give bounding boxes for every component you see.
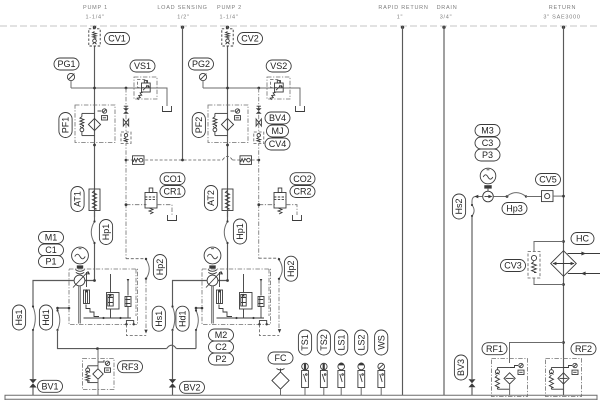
wire load sensing bus bbox=[182, 26, 184, 160]
svg-text:3" SAE3000: 3" SAE3000 bbox=[543, 15, 580, 21]
check valve CV5 bbox=[542, 191, 565, 202]
label Hd1 l bbox=[39, 305, 52, 330]
label Hp1 r bbox=[233, 219, 246, 244]
wire Hp2 right lower bbox=[278, 279, 281, 333]
label FC bbox=[268, 352, 293, 364]
port marker RETURN bbox=[562, 26, 565, 29]
wire Hs1 (pump2 out) bbox=[171, 281, 207, 380]
label C3 bbox=[475, 137, 500, 149]
linkage pump 2 valve assembly bbox=[219, 305, 232, 317]
wire VS1 drain bbox=[157, 88, 167, 106]
wire gauge column pump1 bbox=[125, 88, 127, 259]
manifold block pump 1 valve assembly bbox=[69, 269, 138, 325]
svg-text:Hp3: Hp3 bbox=[506, 204, 523, 214]
svg-text:Hs1: Hs1 bbox=[154, 311, 164, 327]
valve VS1 bbox=[134, 77, 157, 100]
check valve CV3 bbox=[528, 242, 564, 285]
tank symbol VS2 drain bbox=[296, 106, 305, 112]
valve VS2 bbox=[267, 77, 290, 100]
wire manifold LS to Hp2 pump2 bbox=[259, 325, 279, 336]
variable pump pump 1 valve assembly bbox=[73, 271, 90, 324]
port marker RAPID RETURN bbox=[401, 26, 404, 29]
svg-text:P3: P3 bbox=[482, 150, 493, 160]
label M2 bbox=[209, 329, 234, 341]
wire RF1 outlet bbox=[509, 384, 511, 395]
label BV2 bbox=[180, 381, 205, 393]
ball valve pump1 column bbox=[123, 106, 129, 114]
svg-text:LS1: LS1 bbox=[336, 334, 346, 350]
coupling pump1 column bbox=[123, 119, 128, 126]
sensor TS1 bbox=[302, 363, 309, 395]
svg-text:TS1: TS1 bbox=[300, 334, 310, 351]
svg-text:Hd1: Hd1 bbox=[41, 309, 51, 326]
manifold block pump 2 valve assembly bbox=[202, 269, 271, 325]
svg-text:Hd1: Hd1 bbox=[178, 310, 188, 327]
relief valve CO1/CR1 bbox=[125, 188, 172, 215]
label LS2 bbox=[355, 330, 368, 355]
svg-text:Hp2: Hp2 bbox=[286, 260, 296, 277]
wire to RF1 bbox=[510, 341, 565, 363]
wire RF3 outlet bbox=[97, 379, 99, 395]
label Hp2 r bbox=[284, 256, 297, 281]
svg-text:P1: P1 bbox=[45, 257, 56, 267]
port marker PUMP 2 bbox=[226, 26, 229, 29]
svg-text:Hp1: Hp1 bbox=[235, 223, 245, 240]
svg-text:Hp2: Hp2 bbox=[155, 259, 165, 276]
gauge PG1 bbox=[67, 73, 74, 88]
spool cartridge 1 pump 2 valve assembly bbox=[217, 272, 223, 304]
hose Hp3 bbox=[507, 193, 542, 198]
svg-text:PG2: PG2 bbox=[192, 59, 210, 69]
check valve CV2 bbox=[222, 29, 233, 46]
port marker LOAD SENSING bbox=[181, 26, 184, 29]
svg-text:M2: M2 bbox=[215, 330, 228, 340]
svg-text:HC: HC bbox=[576, 234, 589, 244]
variable pump pump 2 valve assembly bbox=[206, 271, 223, 324]
svg-text:1/2": 1/2" bbox=[177, 15, 190, 21]
wire VS2 drain bbox=[290, 88, 300, 106]
label Hs1 l bbox=[12, 305, 25, 330]
filter PF1 bbox=[75, 105, 115, 143]
label VS2 bbox=[266, 60, 291, 72]
svg-text:CV5: CV5 bbox=[539, 175, 557, 185]
wire pump 1 supply lower bbox=[85, 243, 96, 282]
wire Hs2 bbox=[471, 197, 475, 380]
svg-text:RETURN: RETURN bbox=[549, 5, 576, 11]
label VS1 bbox=[130, 60, 155, 72]
label PF1 bbox=[59, 113, 72, 138]
check valve pump2 column bbox=[254, 132, 264, 144]
valve BV2 bbox=[169, 379, 176, 395]
sensor LS1 bbox=[338, 363, 345, 396]
hose Hp2 left bbox=[145, 258, 149, 280]
svg-text:BV2: BV2 bbox=[183, 383, 200, 393]
wire drain bus bbox=[443, 26, 445, 395]
label C2 bbox=[209, 341, 234, 353]
label C1 bbox=[39, 244, 64, 256]
filter RF1 bbox=[492, 359, 528, 397]
junction pump1 column / LS bbox=[125, 159, 128, 162]
tank symbol VS1 drain bbox=[163, 106, 172, 112]
hose Hp1 pump1 bbox=[91, 211, 95, 245]
svg-text:RF1: RF1 bbox=[486, 344, 503, 354]
wire load-sensing pilot line bbox=[126, 156, 259, 161]
manifold internal gallery pump 2 valve assembly bbox=[217, 269, 270, 319]
wire Hs1 (pump1 out) bbox=[32, 281, 74, 380]
port label RETURN bbox=[543, 5, 580, 21]
svg-text:Hp1: Hp1 bbox=[101, 224, 111, 241]
label P2 bbox=[209, 353, 234, 365]
svg-text:P2: P2 bbox=[215, 354, 226, 364]
circulation pump HP3 bbox=[474, 191, 508, 202]
bulkhead dashed line bbox=[0, 25, 600, 27]
linkage pump 1 valve assembly bbox=[86, 305, 99, 317]
spool cartridge 3 pump 1 valve assembly bbox=[125, 279, 131, 307]
label RF2 bbox=[571, 343, 596, 355]
check valve CV1 bbox=[89, 29, 100, 46]
svg-text:RAPID RETURN: RAPID RETURN bbox=[378, 5, 428, 11]
label RF1 bbox=[482, 343, 507, 355]
label CR1 bbox=[160, 186, 185, 198]
tank symbol CO1/CR1 bbox=[168, 215, 177, 221]
port label RAPID RETURN bbox=[378, 5, 428, 21]
wire Hp2 left bbox=[126, 258, 146, 260]
label CV4 bbox=[265, 138, 290, 150]
svg-text:RF2: RF2 bbox=[575, 344, 592, 354]
label CV5 bbox=[536, 174, 561, 186]
filter RF3 bbox=[83, 359, 115, 390]
filter PF2 bbox=[208, 105, 248, 143]
ball valve pump2 column bbox=[256, 106, 262, 114]
svg-text:LOAD SENSING: LOAD SENSING bbox=[157, 5, 207, 11]
hose jump Hd1 over BV2 line bbox=[167, 345, 196, 348]
svg-text:BV1: BV1 bbox=[41, 382, 58, 392]
svg-text:AT2: AT2 bbox=[206, 190, 216, 206]
svg-text:C3: C3 bbox=[482, 138, 494, 148]
label WS bbox=[375, 330, 388, 355]
svg-text:RF3: RF3 bbox=[121, 362, 138, 372]
svg-text:MJ: MJ bbox=[272, 126, 284, 136]
svg-text:PF1: PF1 bbox=[61, 117, 71, 134]
svg-text:CR2: CR2 bbox=[293, 187, 311, 197]
port label PUMP 1 bbox=[83, 5, 108, 21]
svg-text:CR1: CR1 bbox=[163, 187, 181, 197]
hose Hp1 pump2 bbox=[224, 211, 228, 245]
label LS1 bbox=[335, 330, 348, 355]
svg-text:CV3: CV3 bbox=[504, 261, 522, 271]
wire Hd1 (pump2 out) bbox=[195, 307, 204, 349]
svg-text:1-1/4": 1-1/4" bbox=[86, 15, 105, 21]
gauge M3/C3/P3 bbox=[480, 168, 496, 191]
svg-text:FC: FC bbox=[275, 353, 287, 363]
svg-text:Hs1: Hs1 bbox=[14, 309, 24, 325]
wire Hp2 left lower bbox=[144, 279, 147, 334]
sensor LS2 bbox=[358, 363, 365, 395]
label CO1 bbox=[160, 173, 185, 185]
wire pump2 to VS2 bbox=[203, 87, 300, 90]
gauge assembly M1/C1/P1 bbox=[72, 247, 89, 274]
svg-text:WS: WS bbox=[376, 335, 386, 350]
wire Hd1 (pump1 out) bbox=[56, 307, 166, 350]
svg-text:VS1: VS1 bbox=[134, 61, 151, 71]
wire gauge column pump2 bbox=[258, 88, 260, 259]
manifold LS port bracket pump2 bbox=[258, 321, 268, 326]
label Hs1 r bbox=[152, 306, 165, 331]
hose Hp2 right bbox=[278, 258, 282, 280]
spool cartridge 2 pump 1 valve assembly bbox=[107, 274, 120, 309]
svg-text:BV3: BV3 bbox=[456, 359, 466, 376]
heat exchanger HC bbox=[551, 240, 600, 286]
label CO2 bbox=[290, 173, 315, 185]
junction pump2 column / LS bbox=[257, 159, 260, 162]
label TS2 bbox=[317, 330, 330, 355]
junction PF2 outlet bbox=[226, 144, 229, 147]
sensor WS bbox=[378, 363, 385, 395]
wire pump1 to VS1 bbox=[71, 87, 167, 90]
label BV4 bbox=[265, 112, 290, 124]
label CV2 bbox=[238, 33, 263, 45]
port label LOAD SENSING bbox=[157, 5, 207, 21]
damper AT1 bbox=[89, 189, 100, 211]
label Hp2 l bbox=[153, 255, 166, 280]
svg-text:1": 1" bbox=[397, 15, 404, 21]
svg-text:CV1: CV1 bbox=[108, 34, 126, 44]
svg-text:VS2: VS2 bbox=[270, 61, 287, 71]
junction PF1 outlet bbox=[93, 144, 96, 147]
wire pump 2 supply bus bbox=[227, 26, 229, 217]
label HC bbox=[571, 233, 594, 245]
orifice check block right bbox=[240, 156, 252, 165]
port label DRAIN bbox=[437, 5, 458, 21]
tank symbol CO2/CR2 bbox=[293, 215, 302, 221]
valve BV3 bbox=[469, 379, 476, 395]
svg-text:CO1: CO1 bbox=[163, 174, 182, 184]
label Hd1 r bbox=[176, 306, 189, 331]
label TS1 bbox=[298, 330, 311, 355]
filter FC bbox=[272, 369, 289, 396]
svg-text:AT1: AT1 bbox=[73, 191, 83, 207]
svg-text:PG1: PG1 bbox=[57, 59, 75, 69]
label Hs2 bbox=[452, 194, 465, 219]
label M1 bbox=[39, 232, 64, 244]
svg-text:CO2: CO2 bbox=[293, 174, 312, 184]
label Hp1 l bbox=[99, 220, 112, 245]
port label PUMP 2 bbox=[217, 5, 242, 21]
svg-text:CV4: CV4 bbox=[269, 139, 287, 149]
filter RF2 bbox=[546, 359, 582, 397]
label BV1 bbox=[38, 380, 63, 392]
svg-text:Hs2: Hs2 bbox=[454, 198, 464, 214]
label P1 bbox=[39, 256, 64, 268]
relief valve CO2/CR2 bbox=[257, 188, 297, 215]
svg-text:PF2: PF2 bbox=[194, 117, 204, 134]
label PG2 bbox=[189, 58, 214, 70]
svg-text:PUMP 1: PUMP 1 bbox=[83, 5, 108, 11]
svg-text:M3: M3 bbox=[481, 126, 494, 136]
label PF2 bbox=[192, 113, 205, 138]
reservoir tank bbox=[5, 395, 597, 400]
label AT1 bbox=[71, 187, 84, 212]
label RF3 bbox=[118, 361, 143, 373]
gauge assembly M2/C2/P2 bbox=[204, 247, 221, 274]
wire rapid return bus bbox=[402, 26, 404, 395]
coupling pump2 column bbox=[256, 119, 261, 126]
valve BV1 bbox=[29, 379, 36, 395]
label PG1 bbox=[54, 58, 79, 70]
label AT2 bbox=[204, 186, 217, 211]
spool cartridge 2 pump 2 valve assembly bbox=[240, 274, 253, 309]
wire manifold LS to Hp2 pump1 bbox=[126, 325, 146, 336]
svg-text:LS2: LS2 bbox=[356, 334, 366, 350]
svg-text:PUMP 2: PUMP 2 bbox=[217, 5, 242, 11]
port marker PUMP 1 bbox=[93, 26, 96, 29]
label MJ bbox=[267, 125, 289, 137]
label CV3 bbox=[501, 260, 526, 272]
wire to RF3 bbox=[97, 349, 99, 369]
svg-text:3/4": 3/4" bbox=[440, 15, 453, 21]
manifold internal gallery pump 1 valve assembly bbox=[84, 269, 137, 319]
wire pump 2 supply lower bbox=[218, 243, 229, 282]
wire Hp2 right bbox=[259, 257, 279, 259]
gauge PG2 bbox=[199, 73, 206, 88]
port marker DRAIN bbox=[442, 26, 445, 29]
label M3 bbox=[475, 125, 500, 137]
svg-text:CV2: CV2 bbox=[241, 34, 259, 44]
svg-text:BV4: BV4 bbox=[269, 113, 286, 123]
wire return bus bbox=[563, 26, 565, 395]
svg-text:C2: C2 bbox=[215, 342, 227, 352]
svg-text:1-1/4": 1-1/4" bbox=[220, 15, 239, 21]
label CV1 bbox=[105, 33, 130, 45]
svg-text:M1: M1 bbox=[45, 233, 58, 243]
svg-text:TS2: TS2 bbox=[319, 334, 329, 351]
label P3 bbox=[475, 149, 500, 161]
label Hp3 bbox=[502, 203, 527, 215]
svg-text:DRAIN: DRAIN bbox=[437, 5, 458, 11]
spool cartridge 1 pump 1 valve assembly bbox=[84, 272, 90, 304]
manifold LS port bracket pump1 bbox=[125, 321, 135, 326]
label BV3 bbox=[454, 355, 467, 380]
orifice check block left bbox=[133, 156, 145, 165]
damper AT2 bbox=[222, 189, 233, 211]
sensor TS2 bbox=[320, 363, 327, 395]
spool cartridge 3 pump 2 valve assembly bbox=[258, 279, 264, 307]
label CR2 bbox=[290, 186, 315, 198]
wire pump 1 supply bus bbox=[94, 26, 96, 217]
check valve pump1 column bbox=[121, 132, 131, 144]
svg-text:C1: C1 bbox=[45, 245, 57, 255]
